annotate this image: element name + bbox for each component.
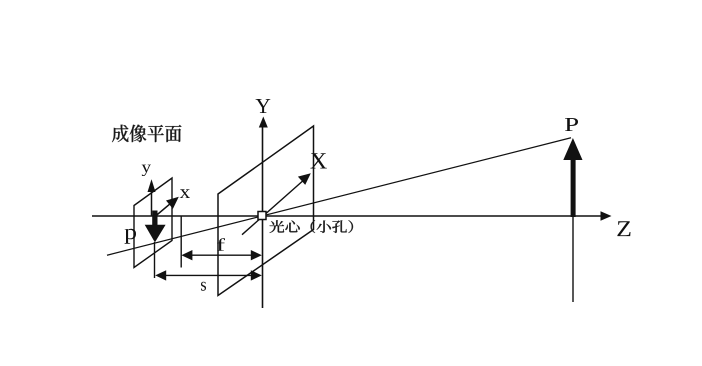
image y axis label [142, 165, 151, 176]
Y axis arrowhead [259, 117, 268, 128]
f dimension line [181, 250, 261, 260]
label: optical center 光心（小孔） [270, 220, 354, 233]
vertical line below image plane (s reference) [154, 242, 156, 278]
image x axis arrowhead [166, 197, 179, 209]
label: imaging plane (成像平面) [112, 125, 182, 143]
Z axis line [92, 215, 603, 217]
world point P vertical line below axis [572, 216, 574, 302]
image x axis label [180, 189, 190, 198]
world point vector P (thick up arrow) [563, 138, 582, 217]
image x axis line [155, 202, 172, 216]
X axis arrowhead [298, 173, 311, 185]
Y axis line [262, 124, 264, 308]
image point vector p (thick down arrow) [145, 211, 166, 243]
f dimension label [217, 238, 225, 251]
light ray from P through pinhole to image plane [107, 138, 571, 255]
s dimension line [155, 270, 262, 280]
image y axis line [151, 190, 153, 216]
camera plane (parallelogram through optical center) [218, 126, 314, 296]
X axis label [310, 153, 326, 168]
X axis line [242, 179, 306, 235]
focal plane tick line [180, 217, 182, 268]
image y axis arrowhead [148, 179, 156, 192]
Z axis label [617, 221, 630, 236]
imaging plane (small parallelogram) [134, 178, 172, 268]
Y axis label [256, 99, 271, 113]
Z axis arrowhead [601, 211, 612, 220]
s dimension label [201, 282, 206, 291]
optical center pinhole square [258, 212, 266, 220]
image point label p [125, 229, 137, 244]
world point label P [565, 118, 578, 131]
